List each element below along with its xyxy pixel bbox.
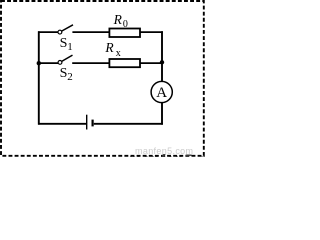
wire top branch to switch S1 (38, 31, 59, 33)
watermark manfen5.com (135, 146, 193, 156)
junction node right (160, 60, 164, 64)
label R0 (113, 12, 128, 30)
svg-text:R: R (104, 40, 114, 55)
watermark clipped bold row (129, 151, 230, 167)
wire R0 to right rail (140, 31, 163, 33)
wire S2 to Rx (72, 62, 109, 64)
battery cell (87, 115, 93, 130)
switch S2 (58, 55, 72, 64)
wire ammeter to bottom (161, 103, 163, 125)
svg-text:A: A (156, 85, 167, 101)
svg-text:R: R (113, 12, 123, 27)
label S2 (60, 66, 73, 83)
switch S1 (58, 25, 73, 34)
junction node left (37, 61, 41, 65)
wire S1 to R0 (72, 31, 108, 33)
svg-text:0: 0 (123, 19, 128, 30)
wire left rail (38, 31, 40, 124)
wire middle branch to switch S2 (38, 62, 58, 64)
resistor R0 (109, 29, 140, 38)
wire Rx to junction (140, 62, 162, 64)
wire battery to right rail (94, 123, 163, 125)
wire right rail upper (161, 31, 163, 81)
label S1 (60, 36, 73, 53)
label Rx (104, 40, 120, 59)
svg-text:x: x (116, 48, 121, 59)
svg-text:1: 1 (67, 41, 73, 53)
svg-text:2: 2 (67, 71, 73, 83)
resistor Rx (109, 59, 140, 67)
svg-text:S: S (60, 36, 68, 51)
svg-text:S: S (60, 66, 68, 81)
wire bottom left segment (38, 123, 86, 125)
ammeter A (151, 81, 172, 102)
